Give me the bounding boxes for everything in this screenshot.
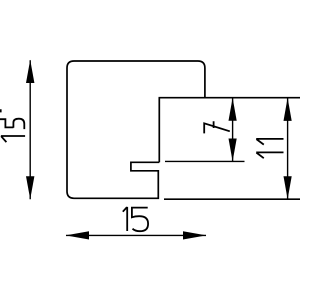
dim line 7 (232, 98, 234, 161)
panel left edge (158, 98, 160, 163)
dimension lines (30, 60, 287, 235)
arrow left (15 bottom) (66, 231, 89, 239)
dim line 11 (287, 98, 289, 199)
extension line 7 (165, 160, 245, 162)
dim line 15 bottom (66, 234, 206, 236)
text 11 (rotated): first 1 (256, 152, 283, 158)
arrowheads (26, 60, 292, 240)
panel top edge (159, 97, 301, 99)
frame body with notch (67, 61, 205, 198)
arrow down (11 bottom) (284, 176, 292, 199)
text 7 (rotated, crossed style) (204, 121, 230, 133)
dimension texts drawn as strokes (0, 109, 284, 231)
text 15 (bottom): digit 1 (123, 207, 127, 231)
text 15 (bottom): digit 5 (132, 208, 148, 232)
dim line 15 left (29, 60, 31, 199)
arrow up (15 left top) (26, 60, 34, 83)
text 15 (left, rotated): digit 5 (0, 109, 24, 129)
arrow up (11 top) (284, 98, 292, 121)
arrow down (15 left bottom) (26, 176, 34, 199)
arrow up (7 top) (229, 98, 237, 121)
text 11 (rotated): second 1 (256, 139, 283, 145)
frame profile outline (67, 61, 300, 199)
arrow down (7 bottom) (229, 139, 237, 162)
panel bottom edge (164, 198, 300, 200)
text 15 (left, rotated): digit 1 (1, 136, 25, 142)
arrow right (15 bottom) (183, 231, 206, 239)
